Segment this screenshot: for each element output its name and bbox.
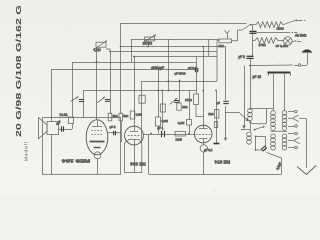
potentiometer 0,1M: [94, 41, 107, 50]
wire pot1000 lower stub: [148, 41, 150, 47]
node junction dots: [96, 46, 251, 135]
wire top bus y23.5: [120, 23, 247, 25]
switch mains S4: [283, 20, 306, 25]
capacitor electrolytic C mains2: [247, 56, 254, 58]
terminal T5 arrow: [288, 137, 300, 143]
wire tube2 to tube3 grid: [143, 134, 194, 136]
wire vertical x196 lower: [196, 105, 203, 117]
svg-text:0,1M: 0,1M: [94, 48, 101, 52]
svg-text:µF 1: µF 1: [158, 126, 164, 130]
wire L1 link: [250, 121, 252, 132]
resistor box R above tube2 left: [119, 113, 123, 121]
svg-text:5kΩ: 5kΩ: [123, 114, 128, 118]
tube V1 RES164: [86, 120, 108, 175]
wire vertical x158 lower stub: [158, 126, 160, 134]
svg-text:µF 5000: µF 5000: [175, 71, 186, 75]
wire vertical x162: [162, 91, 164, 131]
resistor box 2k x179: [177, 103, 181, 110]
svg-text:RE 074: RE 074: [214, 160, 230, 165]
svg-text:µF: µF: [217, 101, 221, 105]
resistor box 0,1M Dh: [187, 120, 192, 126]
svg-text:RES 164: RES 164: [61, 158, 90, 163]
wire mains mid: [257, 32, 298, 34]
wire coil link top: [250, 108, 273, 110]
wire coil feed x273: [273, 74, 275, 111]
resistor box above tube2: [130, 111, 135, 119]
inductor L1a: [248, 109, 253, 121]
switch band S6: [240, 114, 249, 122]
svg-text:1000Ω: 1000Ω: [143, 42, 153, 46]
potentiometer 1000 Ohm: [143, 35, 156, 43]
wire vertical x51 speaker return: [51, 135, 53, 175]
capacitor block uF15: [268, 73, 291, 76]
terminal T6: [288, 146, 297, 149]
terminal T3: [288, 125, 297, 128]
wire vertical x189 lower stub: [189, 125, 191, 134]
choke DrSt: [69, 117, 74, 124]
wire vertical x141.5: [141, 81, 143, 143]
inductor L2a: [271, 111, 276, 131]
wire vertical x189: [189, 91, 191, 120]
svg-text:2kΩ: 2kΩ: [219, 44, 225, 48]
wire y62 bus: [72, 62, 196, 64]
wire antenna lead: [250, 64, 307, 67]
resistor box x216 upper: [214, 110, 219, 119]
svg-text:2kΩ: 2kΩ: [182, 105, 188, 109]
svg-text:0,1M: 0,1M: [178, 121, 185, 125]
svg-text:Dr.St.: Dr.St.: [60, 113, 69, 117]
svg-text:0,3M: 0,3M: [136, 113, 143, 117]
wire tube1 to tube2 grid: [108, 132, 122, 134]
capacitor coupling C2: [162, 131, 165, 137]
svg-text:DrNf: DrNf: [176, 137, 182, 141]
capacitor trimmer C7: [105, 100, 110, 102]
wire vertical x96.5 tube1 anode: [96, 48, 98, 120]
lamp dial: [284, 37, 293, 46]
switch trimmer S1: [71, 97, 79, 102]
capacitor on bus x196: [195, 68, 197, 72]
wire vertical x51 speaker feed: [51, 70, 53, 122]
wire vertical x226: [225, 47, 227, 101]
tube V3 RE074: [194, 125, 212, 152]
capacitor trimmer C1: [79, 100, 84, 102]
choke DrNf: [175, 132, 186, 137]
wire riser x281.5: [281, 158, 283, 174]
wire speaker to choke: [59, 129, 73, 131]
wire vertical x215.5: [216, 91, 218, 144]
resistor box x141.5: [139, 95, 145, 103]
resistor box 0,3M mid: [156, 117, 161, 126]
wire vertical x120 top: [120, 24, 122, 115]
capacitor trimmer C2: [174, 101, 179, 103]
switch trimmer S2: [170, 98, 178, 104]
switch trimmer S7: [97, 97, 105, 103]
wire branch y112.8: [226, 112, 241, 114]
node pickup Y: [224, 30, 229, 39]
tube V2 RE034: [125, 126, 144, 172]
svg-text:Modell: Modell: [24, 142, 29, 161]
svg-text:An Netz: An Netz: [295, 34, 307, 38]
svg-text:4000µµF: 4000µµF: [151, 66, 164, 70]
capacitor coupling C 5000: [114, 131, 116, 135]
capacitor electrolytic C mains1: [250, 31, 257, 33]
wire vertical x72: [72, 62, 74, 117]
wire cap2 bottom stub: [250, 58, 252, 65]
resistor box 2k detector: [219, 39, 232, 43]
wire vertical x217: [217, 41, 219, 81]
wire y51.5 bus: [110, 51, 217, 53]
wire tube3 cathode lead: [203, 152, 205, 174]
capacitor bar tube3 cathode: [214, 143, 220, 145]
wire y46.5 bus: [120, 46, 226, 48]
wire y56.5 bus: [133, 56, 217, 58]
antenna: [302, 49, 312, 65]
svg-text:0,3M: 0,3M: [162, 119, 169, 123]
wire bottom bus tube3: [149, 174, 282, 176]
wire output stage loop rectangle: [43, 118, 121, 175]
svg-text:4V 0,45A: 4V 0,45A: [276, 44, 288, 48]
wire R2 left link: [253, 40, 256, 42]
wire tilted link: [267, 153, 282, 159]
node loop dots: [255, 136, 257, 151]
wire y81 bus: [142, 81, 218, 83]
wire L1 tap: [241, 129, 250, 131]
resistor box x162: [160, 104, 165, 112]
wire switch to R: [250, 24, 257, 26]
capacitor tilted: [261, 146, 267, 152]
svg-text:µF 0,2: µF 0,2: [204, 148, 213, 152]
wire vertical x110.5: [110, 52, 112, 115]
wire coil link mid: [271, 130, 288, 132]
svg-text:20 G/98 G/108 G/162 G: 20 G/98 G/108 G/162 G: [14, 5, 23, 137]
wire coil feed x284.5: [284, 74, 286, 111]
wire vertical x168.5: [168, 39, 170, 91]
wire R2 to lamp: [278, 40, 284, 42]
wire 2k right link: [232, 30, 243, 41]
terminal T2 arrow: [288, 115, 306, 121]
terminal T1: [288, 110, 297, 113]
svg-text:2kΩ: 2kΩ: [113, 114, 118, 118]
wire vertical x121.3: [120, 121, 122, 142]
wire y123.7 link: [249, 122, 266, 124]
ground earth arrow: [297, 166, 316, 175]
svg-text:µF 15: µF 15: [253, 75, 262, 79]
wire coil feed x244: [242, 66, 245, 130]
wire y70 bus: [51, 69, 195, 71]
wire earth lead: [306, 118, 308, 168]
wire vertical x179: [179, 81, 181, 103]
wire coil feed x250: [250, 66, 252, 109]
speaker: [39, 118, 59, 139]
wire vertical x131.5: [131, 39, 133, 62]
wire vertical x83: [83, 91, 85, 118]
wire vertical x226 lower: [225, 106, 227, 139]
inductor L3b: [282, 134, 287, 150]
wire vertical x158: [158, 70, 160, 118]
switch mains S3: [242, 24, 252, 30]
wire cap chain vertical: [252, 25, 254, 56]
node wiper arrow x225.5: [224, 138, 227, 141]
wire vertical x203 tube3 anode: [203, 47, 205, 126]
wire y39 bus: [132, 39, 220, 41]
wire loop rectangle: [256, 137, 266, 151]
wire vertical x134 tube2 anode: [134, 57, 136, 127]
wire pot output stub: [106, 49, 110, 52]
wire y90.5 bus: [83, 90, 196, 92]
inductor L3a: [282, 111, 287, 131]
capacitor C x226: [223, 101, 228, 103]
resistor box R above tube1 left: [108, 113, 112, 121]
svg-text:µF 5: µF 5: [110, 125, 116, 129]
wire vertical x208.7: [208, 39, 210, 57]
inductor L1b: [247, 132, 252, 144]
wire lamp out: [292, 40, 301, 42]
svg-text:1kΩ: 1kΩ: [208, 112, 214, 116]
wire vertical x72 lower: [72, 124, 74, 130]
svg-text:µF 2: µF 2: [239, 55, 246, 59]
resistor box x215.5: [214, 122, 217, 128]
switch band S5: [254, 126, 265, 131]
svg-text:175Ω: 175Ω: [259, 43, 267, 47]
resistor R ballast 175: [255, 38, 278, 44]
wire vertical x151: [148, 134, 150, 174]
terminal T4: [288, 132, 297, 135]
svg-text:17kΩ: 17kΩ: [185, 98, 193, 102]
svg-text:RE 034: RE 034: [130, 161, 146, 166]
resistor box 17k tube3: [194, 94, 199, 105]
wire tube2 cathode loop: [125, 143, 142, 173]
resistor R ballast 120: [256, 22, 283, 28]
capacitor speaker shunt: [62, 126, 64, 131]
wire vertical x196: [196, 57, 198, 95]
wire vertical x266: [266, 109, 268, 124]
svg-text:120Ω: 120Ω: [277, 26, 285, 30]
inductor L2b: [271, 134, 276, 150]
